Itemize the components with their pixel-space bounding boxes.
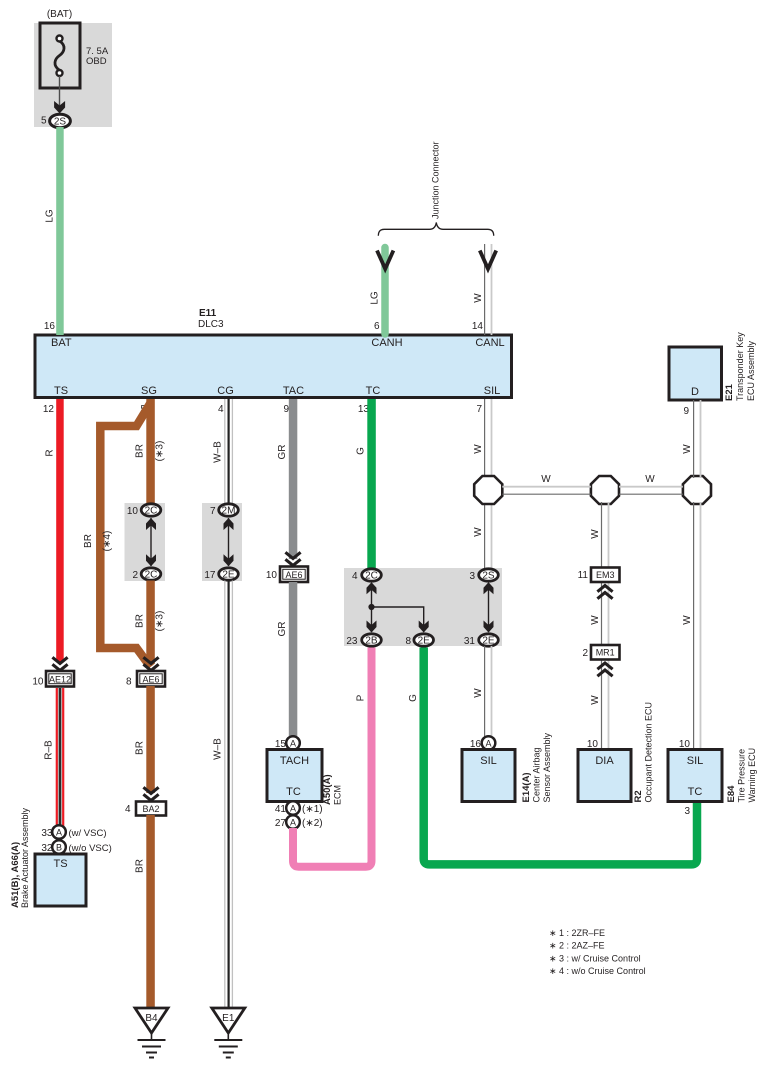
svg-text:A: A xyxy=(485,739,491,749)
svg-text:SIL: SIL xyxy=(484,385,501,397)
svg-text:10: 10 xyxy=(127,506,139,517)
svg-text:2E: 2E xyxy=(222,570,235,581)
connector oval 2S (mid) xyxy=(479,569,499,581)
svg-text:TACH: TACH xyxy=(280,755,309,767)
wire W octagon2 to EM3 xyxy=(602,502,609,568)
svg-text:2C: 2C xyxy=(145,570,158,581)
wire BR main lower xyxy=(146,581,155,665)
svg-text:Tire Pressure: Tire Pressure xyxy=(737,749,747,803)
wire W octagon3 to E84 xyxy=(694,502,701,750)
svg-text:W: W xyxy=(590,529,601,539)
connector oval 2B xyxy=(362,634,382,646)
svg-text:W: W xyxy=(590,615,601,625)
svg-text:W–B: W–B xyxy=(213,441,224,463)
wire W MR1 to DIA xyxy=(602,660,609,751)
svg-text:LG: LG xyxy=(370,291,381,305)
svg-text:17: 17 xyxy=(204,570,216,581)
connector box AE12 xyxy=(46,671,74,687)
svg-text:(∗2): (∗2) xyxy=(302,818,323,829)
connector circle A (pin27) xyxy=(286,815,300,829)
svg-text:14: 14 xyxy=(472,321,484,332)
svg-text:P: P xyxy=(356,694,367,701)
arrowhead down (2E right) xyxy=(484,621,494,633)
connector box MR1 xyxy=(591,645,620,660)
ground E1 xyxy=(212,1008,245,1058)
wire W 2E to E14 xyxy=(485,646,492,737)
connector oval 2E (mid) xyxy=(414,634,434,646)
link line 2S-2E xyxy=(488,583,490,632)
svg-text:11: 11 xyxy=(578,570,589,581)
svg-text:GR: GR xyxy=(277,445,288,460)
chevron arrows into AE6 (TAC) xyxy=(285,552,300,565)
connector circle A (TACH) xyxy=(286,736,300,750)
svg-text:(∗3): (∗3) xyxy=(155,611,166,632)
svg-text:5: 5 xyxy=(41,116,47,127)
arrowhead up (2C mid) xyxy=(367,582,377,594)
svg-text:(w/ VSC): (w/ VSC) xyxy=(69,828,107,839)
connector circle B (w/o VSC) xyxy=(52,840,66,854)
connector oval 2C bottom xyxy=(141,568,161,580)
wire BR to BA2 xyxy=(146,686,155,793)
svg-text:Brake Actuator Assembly: Brake Actuator Assembly xyxy=(20,807,30,908)
svg-text:41: 41 xyxy=(275,804,287,815)
wire fuse to 2S xyxy=(59,76,61,108)
arrowhead up (2C) xyxy=(146,518,156,530)
svg-text:(∗3): (∗3) xyxy=(155,441,166,462)
svg-text:16: 16 xyxy=(44,321,56,332)
svg-text:E21: E21 xyxy=(724,383,735,401)
arrowhead down (2E) xyxy=(224,554,234,566)
svg-text:R2: R2 xyxy=(633,790,644,802)
svg-text:TAC: TAC xyxy=(283,385,304,397)
svg-text:10: 10 xyxy=(266,570,278,581)
svg-text:27: 27 xyxy=(275,818,287,829)
svg-text:31: 31 xyxy=(464,636,476,647)
wire W-B upper xyxy=(225,399,233,510)
wire BR main upper xyxy=(146,399,155,510)
svg-text:12: 12 xyxy=(43,404,55,415)
svg-text:Warning ECU: Warning ECU xyxy=(747,748,757,803)
gray panel fuse background xyxy=(34,23,112,127)
junction dot xyxy=(368,604,374,610)
wire BR to ground xyxy=(146,815,155,1008)
svg-text:2C: 2C xyxy=(365,571,378,582)
svg-text:SIL: SIL xyxy=(687,755,704,767)
svg-text:Occupant Detection ECU: Occupant Detection ECU xyxy=(644,702,654,803)
svg-text:2: 2 xyxy=(582,648,588,659)
wire P pink xyxy=(293,648,372,867)
svg-text:BR: BR xyxy=(135,859,146,873)
svg-text:R–B: R–B xyxy=(44,740,55,760)
gray panel 2C-2C pair xyxy=(125,503,166,581)
branch line to 2E xyxy=(372,607,424,632)
connector circle A (pin41) xyxy=(286,801,300,815)
connector box E11 DLC3 xyxy=(35,335,512,398)
svg-text:OBD: OBD xyxy=(86,56,107,67)
svg-text:2B: 2B xyxy=(365,636,378,647)
link line 2C-2C xyxy=(150,518,152,566)
connector box BA2 xyxy=(136,802,166,816)
box E14 SIL xyxy=(462,750,515,802)
wire R-B xyxy=(56,688,65,826)
svg-text:W: W xyxy=(682,615,693,625)
svg-text:BR: BR xyxy=(135,614,146,628)
svg-text:CANL: CANL xyxy=(475,337,504,349)
svg-text:TS: TS xyxy=(53,858,67,870)
svg-text:W: W xyxy=(473,688,484,698)
wire W SIL to octagon xyxy=(485,399,492,478)
connector oval 2C (mid) xyxy=(362,569,382,581)
svg-text:9: 9 xyxy=(683,406,689,417)
svg-text:Junction Connector: Junction Connector xyxy=(431,141,441,219)
svg-text:BR: BR xyxy=(135,741,146,755)
octagon junction 3 xyxy=(683,476,711,504)
svg-text:DLC3: DLC3 xyxy=(198,319,224,330)
svg-text:AE6: AE6 xyxy=(142,675,159,685)
arrowhead into 2S xyxy=(54,101,65,114)
svg-text:A: A xyxy=(290,804,296,814)
svg-text:W: W xyxy=(541,474,551,485)
svg-text:2S: 2S xyxy=(54,117,67,128)
arrowhead down (2B) xyxy=(367,621,377,633)
svg-text:TC: TC xyxy=(286,786,301,798)
svg-text:∗ 2 : 2AZ–FE: ∗ 2 : 2AZ–FE xyxy=(549,941,605,951)
svg-text:G: G xyxy=(356,447,367,455)
svg-text:SIL: SIL xyxy=(480,755,497,767)
svg-text:(w/o VSC): (w/o VSC) xyxy=(69,843,112,854)
svg-text:3: 3 xyxy=(684,806,690,817)
svg-text:B: B xyxy=(56,843,62,853)
svg-text:GR: GR xyxy=(277,622,288,637)
wire LG BAT column xyxy=(56,127,64,335)
arrowhead up (2M) xyxy=(224,518,234,530)
connector box EM3 xyxy=(591,568,620,583)
wire W-B lower xyxy=(225,581,233,1009)
connector oval 2E (right) xyxy=(479,634,499,646)
svg-text:∗ 3 : w/ Cruise Control: ∗ 3 : w/ Cruise Control xyxy=(549,953,641,963)
svg-text:G: G xyxy=(408,694,419,702)
svg-text:4: 4 xyxy=(218,404,224,415)
connector circle A (w/ VSC) xyxy=(52,825,66,839)
svg-text:2E: 2E xyxy=(418,636,431,647)
svg-text:A: A xyxy=(290,739,296,749)
svg-text:ECU Assembly: ECU Assembly xyxy=(746,340,756,401)
svg-text:W–B: W–B xyxy=(213,738,224,760)
wire W E21 to octagon3 xyxy=(694,400,701,478)
chevron arrows into AE6 xyxy=(143,657,158,670)
arrowhead down (2C) xyxy=(146,554,156,566)
arrowhead up (2S mid) xyxy=(484,582,494,594)
link line 2C-2B xyxy=(371,583,373,632)
svg-text:TC: TC xyxy=(688,786,703,798)
brace junction connector xyxy=(378,223,493,236)
svg-text:Center Airbag: Center Airbag xyxy=(532,747,542,802)
svg-text:2M: 2M xyxy=(222,506,236,517)
wire W octagon1-octagon2 xyxy=(502,487,591,495)
svg-text:E1: E1 xyxy=(222,1013,235,1024)
svg-text:2E: 2E xyxy=(482,636,495,647)
svg-text:10: 10 xyxy=(32,677,44,688)
svg-text:8: 8 xyxy=(405,636,411,647)
connector oval 2M xyxy=(219,504,239,516)
ECU box E21 xyxy=(669,347,722,400)
svg-text:E14(A): E14(A) xyxy=(521,772,532,802)
ground B4 xyxy=(135,1008,168,1058)
svg-text:2C: 2C xyxy=(145,506,158,517)
octagon junction 1 xyxy=(474,476,502,504)
wire BR branch (w/o cruise) xyxy=(100,403,150,667)
connector box AE6 (TAC) xyxy=(280,567,308,583)
svg-text:AE12: AE12 xyxy=(49,675,71,685)
svg-text:9: 9 xyxy=(283,404,289,415)
svg-text:TC: TC xyxy=(366,385,381,397)
box A50(A) ECM xyxy=(267,750,322,802)
svg-text:(∗1): (∗1) xyxy=(302,804,323,815)
svg-text:DIA: DIA xyxy=(595,755,614,767)
svg-text:7: 7 xyxy=(210,506,216,517)
svg-text:8: 8 xyxy=(126,677,132,688)
svg-text:Transponder Key: Transponder Key xyxy=(735,332,745,401)
junction connector arrow V on CANH xyxy=(377,251,393,269)
svg-text:(BAT): (BAT) xyxy=(47,9,72,20)
connector box AE6 xyxy=(137,671,165,687)
wire G from 2E to E84 xyxy=(424,648,697,865)
chevron arrows out of MR1 xyxy=(597,663,612,676)
svg-text:B4: B4 xyxy=(145,1013,158,1024)
svg-text:4: 4 xyxy=(125,804,131,815)
svg-text:2: 2 xyxy=(132,570,138,581)
wire W octagon2-octagon3 xyxy=(619,487,683,495)
box E84 xyxy=(668,750,722,802)
svg-text:W: W xyxy=(473,293,484,303)
svg-text:4: 4 xyxy=(352,571,358,582)
box R2 DIA xyxy=(578,750,631,802)
svg-text:Sensor Assembly: Sensor Assembly xyxy=(542,732,552,802)
connector oval 2S (fuse) xyxy=(50,114,71,128)
octagon junction 2 xyxy=(591,476,619,504)
svg-text:LG: LG xyxy=(45,209,56,223)
chevron arrows into AE12 xyxy=(52,657,67,670)
wire LG CANH column xyxy=(381,248,389,335)
svg-text:2S: 2S xyxy=(482,571,495,582)
svg-text:A: A xyxy=(290,818,296,828)
svg-text:CG: CG xyxy=(217,385,234,397)
svg-text:3: 3 xyxy=(469,571,475,582)
gray panel 2M-2E pair xyxy=(202,503,242,581)
svg-text:BAT: BAT xyxy=(51,337,72,349)
link line 2M-2E xyxy=(228,518,230,566)
svg-text:W: W xyxy=(645,474,655,485)
svg-text:A: A xyxy=(56,828,62,838)
wire GR lower xyxy=(289,582,298,738)
chevron arrows out of EM3 xyxy=(597,586,612,599)
wire GR upper xyxy=(289,399,298,559)
connector oval 2E (CG) xyxy=(219,568,239,580)
svg-text:MR1: MR1 xyxy=(596,648,615,658)
arrowhead down (2E mid) xyxy=(419,621,429,633)
svg-text:TS: TS xyxy=(54,385,68,397)
connector oval 2C top xyxy=(141,504,161,516)
svg-text:W: W xyxy=(473,527,484,537)
svg-text:D: D xyxy=(691,386,699,398)
wire G upper xyxy=(367,399,376,570)
svg-text:W: W xyxy=(590,695,601,705)
svg-text:AE6: AE6 xyxy=(285,570,302,580)
svg-text:BR: BR xyxy=(135,444,146,458)
svg-text:EM3: EM3 xyxy=(596,570,615,580)
wire W CANL column xyxy=(485,244,492,335)
svg-text:BA2: BA2 xyxy=(142,804,159,814)
svg-text:W: W xyxy=(473,444,484,454)
svg-text:E84: E84 xyxy=(726,785,737,803)
svg-text:23: 23 xyxy=(346,636,358,647)
svg-text:R: R xyxy=(45,449,56,456)
connector circle A (E14) xyxy=(482,736,496,750)
svg-text:ECM: ECM xyxy=(333,785,343,805)
svg-text:∗ 1 : 2ZR–FE: ∗ 1 : 2ZR–FE xyxy=(549,928,605,938)
svg-text:A50(A): A50(A) xyxy=(322,774,333,805)
fuse 7.5A OBD xyxy=(40,23,80,88)
svg-text:SG: SG xyxy=(141,385,157,397)
wire W octagon1 to 2S xyxy=(485,502,492,570)
svg-text:6: 6 xyxy=(374,321,380,332)
svg-text:∗ 4 : w/o Cruise Control: ∗ 4 : w/o Cruise Control xyxy=(549,966,646,976)
svg-text:W: W xyxy=(682,444,693,454)
svg-text:CANH: CANH xyxy=(371,337,402,349)
wire R (TS) xyxy=(56,399,64,662)
wire W EM3 to MR1 xyxy=(602,582,609,645)
svg-text:E11: E11 xyxy=(199,308,217,319)
svg-text:(∗4): (∗4) xyxy=(102,531,113,552)
box TS brake actuator xyxy=(35,854,86,906)
junction connector arrow V on CANL xyxy=(480,251,496,269)
chevron arrows into BA2 xyxy=(143,787,158,800)
svg-text:BR: BR xyxy=(83,534,94,548)
svg-text:7: 7 xyxy=(476,404,482,415)
gray panel center junction group xyxy=(344,568,502,646)
